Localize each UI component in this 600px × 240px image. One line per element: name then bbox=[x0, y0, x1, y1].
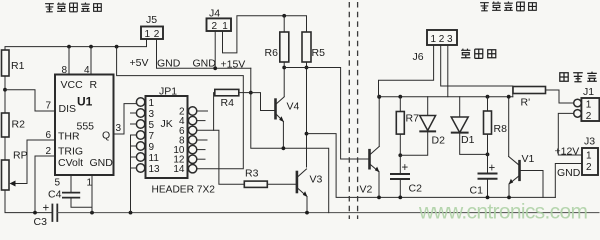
resistor R' bbox=[513, 87, 546, 94]
wire R6/R5 bottoms right to V2 base bbox=[284, 68, 369, 160]
svg-text:RP: RP bbox=[13, 150, 28, 162]
svg-text:VCC: VCC bbox=[61, 79, 84, 91]
resistor R2 bbox=[2, 113, 10, 137]
potentiometer RP wiper arrow bbox=[10, 181, 16, 187]
wire JP1 pin4 stub bbox=[197, 120, 206, 122]
svg-text:3: 3 bbox=[116, 123, 122, 134]
capacitor C4 plates bbox=[63, 192, 79, 194]
wire R6 bottom to V4 collector bbox=[283, 62, 285, 97]
diode D1 bbox=[459, 97, 461, 117]
op-amp U1 555 timer box bbox=[55, 75, 114, 176]
resistor R8 bbox=[484, 111, 492, 134]
wire top rail y=46.6 from R1 top to J5 pin1 bbox=[5, 39, 147, 50]
labels: JP1 pin numbers bbox=[149, 98, 185, 175]
svg-text:J3: J3 bbox=[584, 136, 595, 148]
dashed section divider left bbox=[348, 2, 350, 219]
svg-text:5: 5 bbox=[149, 120, 155, 131]
svg-text:DIS: DIS bbox=[59, 103, 77, 115]
svg-text:3: 3 bbox=[447, 34, 453, 45]
wire D1 bottom to R8 vertical bbox=[460, 133, 488, 155]
connector J4 box bbox=[207, 18, 232, 31]
wire JP1 pin2 stub bbox=[197, 110, 208, 112]
svg-text:2: 2 bbox=[586, 111, 592, 122]
node JP1 pin7 / rail bbox=[129, 211, 133, 215]
wire V1 bottom lead to node line bbox=[508, 184, 510, 197]
svg-text:V3: V3 bbox=[310, 174, 323, 186]
wire R4 right lead to GND vertical bbox=[239, 92, 251, 94]
svg-text:2: 2 bbox=[154, 29, 160, 40]
wire U1 pin4 lead bbox=[90, 47, 92, 75]
svg-text:14: 14 bbox=[173, 164, 185, 175]
svg-text:R6: R6 bbox=[265, 47, 279, 59]
node R1/R2 junction bbox=[3, 88, 7, 92]
wire R' right to J1 pin1 bbox=[546, 90, 574, 103]
wire J4 pin1 +15V jog up to top feed bbox=[223, 16, 307, 53]
node V3 emitter / rail bbox=[305, 211, 309, 215]
wire R6 top lead bbox=[283, 16, 285, 32]
wire TRIG: U1 pin2 left, down to bottom rail bbox=[35, 156, 55, 213]
node R5 mid junction bbox=[305, 132, 309, 136]
transistor V3 bbox=[296, 172, 299, 192]
wire DIS: junction right, down, into U1 pin7 bbox=[5, 90, 55, 111]
wire U1 pin5 lead to C4 bbox=[70, 175, 72, 193]
dashed section divider right bbox=[357, 2, 359, 219]
wire JP1 pin3 stub bbox=[130, 112, 136, 114]
node C1 bottom bbox=[486, 196, 490, 200]
svg-text:THR: THR bbox=[58, 131, 80, 143]
svg-text:R3: R3 bbox=[245, 168, 259, 180]
wire +5V branch: top rail down, right, down to JP1 pin14 row bbox=[117, 47, 244, 169]
wire main regulator node H2 bbox=[379, 96, 513, 98]
svg-text:D2: D2 bbox=[432, 135, 446, 147]
potentiometer RP body bbox=[2, 160, 10, 190]
resistor R1 bbox=[2, 50, 10, 76]
wire J6 pin1 to V2 collector node bbox=[379, 45, 434, 97]
wire R3 right to V3 base bbox=[267, 183, 296, 185]
svg-text:R8: R8 bbox=[494, 123, 508, 135]
svg-text:R4: R4 bbox=[221, 97, 235, 109]
svg-text:R5: R5 bbox=[312, 47, 326, 59]
svg-text:6: 6 bbox=[46, 130, 52, 141]
node R8 top junction bbox=[486, 95, 490, 99]
node C2 bottom bbox=[398, 196, 402, 200]
svg-text:V4: V4 bbox=[287, 101, 300, 113]
svg-text:+15V: +15V bbox=[221, 59, 246, 71]
wire J1 pin2 to J3 pin1 (+12V) bbox=[558, 113, 582, 155]
wire V2 emitter down to node line bbox=[378, 172, 380, 198]
wire C2 top lead bbox=[399, 155, 401, 174]
wire V4 emitter down to emitter-net line bbox=[282, 122, 284, 149]
svg-text:1: 1 bbox=[145, 29, 151, 40]
svg-text:V2: V2 bbox=[360, 184, 373, 196]
svg-text:GND: GND bbox=[157, 58, 181, 70]
wire V2 collector up to main node H2 bbox=[378, 97, 380, 147]
wire Q output pin3 to JP1 pin1 bbox=[114, 104, 137, 134]
svg-text:+: + bbox=[43, 203, 50, 215]
connector J6 box bbox=[427, 30, 457, 45]
wire J3 pin2 GND down to node line bbox=[555, 164, 582, 198]
wire R1 bottom to R2 top bbox=[4, 76, 6, 113]
node R4 right / V4 base junction bbox=[249, 91, 253, 95]
svg-text:9: 9 bbox=[149, 142, 155, 153]
node TRIG/rail junction bbox=[33, 211, 37, 215]
svg-text:C3: C3 bbox=[34, 216, 48, 226]
wire J4 pin2 down to GND node bbox=[214, 31, 216, 68]
resistor R7 bbox=[396, 112, 404, 135]
node R7/C2/D2 junction bbox=[398, 153, 402, 157]
label 逆变稳压器 (title right) bbox=[480, 2, 536, 11]
pin circle J1 pin2 bbox=[574, 110, 582, 118]
svg-text:CVolt: CVolt bbox=[58, 157, 83, 169]
svg-text:2: 2 bbox=[439, 34, 445, 45]
svg-text:+: + bbox=[489, 163, 496, 175]
label 逆变控制器 (title left) bbox=[45, 3, 101, 12]
wire JP1 pin12 stub bbox=[197, 158, 206, 160]
wire R5 mid branch down to regulator node line bbox=[307, 134, 556, 198]
svg-text:1: 1 bbox=[222, 21, 228, 32]
wire C2 bottom lead bbox=[399, 179, 401, 197]
labels: U1 interior and pin numbers bbox=[58, 79, 113, 169]
svg-text:J4: J4 bbox=[209, 8, 220, 20]
svg-text:7: 7 bbox=[46, 101, 52, 112]
svg-text:1: 1 bbox=[149, 98, 155, 109]
node R5 bottom junction bbox=[305, 66, 309, 70]
svg-text:1: 1 bbox=[586, 100, 592, 111]
resistor R5 bbox=[302, 32, 311, 62]
wire J6 pin3 down to H2 bbox=[447, 45, 449, 97]
wire V3 emitter to bottom rail bbox=[306, 197, 308, 213]
wire J6 pin2 to R' left bbox=[441, 45, 513, 97]
header JP1 box bbox=[130, 96, 244, 213]
wire JP1 pin5 stub bbox=[130, 123, 136, 125]
svg-text:R': R' bbox=[521, 97, 531, 109]
svg-text:+5V: +5V bbox=[130, 57, 149, 69]
svg-text:J1: J1 bbox=[583, 86, 594, 98]
node V2 emitter / node line bbox=[377, 196, 381, 200]
label 变压器 (transformer) bbox=[461, 49, 496, 59]
wire R7 top lead bbox=[399, 97, 401, 112]
svg-text:D1: D1 bbox=[461, 134, 475, 146]
svg-text:5: 5 bbox=[55, 178, 61, 189]
node V4 emitter junction bbox=[282, 146, 286, 150]
wire JP1 pin7 to bottom rail bbox=[131, 135, 137, 213]
svg-text:U1: U1 bbox=[77, 95, 93, 109]
pin circles JP1 right column pins 2,4,6,8,10,12,14 bbox=[188, 107, 196, 115]
svg-text:GND: GND bbox=[557, 167, 581, 179]
svg-text:1: 1 bbox=[87, 178, 93, 189]
node V1 bottom bbox=[507, 196, 511, 200]
wire JP1 pin9 stub bbox=[131, 145, 136, 147]
wire R5 bottom down to V3 collector bbox=[306, 62, 308, 167]
svg-text:+: + bbox=[402, 162, 409, 174]
svg-text:2: 2 bbox=[212, 21, 218, 32]
svg-text:2: 2 bbox=[46, 146, 52, 157]
svg-text:R1: R1 bbox=[11, 60, 25, 72]
wire THR: U1 pin6 left, down to RP wiper bbox=[12, 140, 55, 184]
resistor R3 bbox=[244, 181, 267, 187]
svg-text:JK: JK bbox=[161, 118, 173, 130]
connector J1 box bbox=[581, 98, 599, 121]
svg-text:C1: C1 bbox=[470, 185, 484, 197]
svg-text:4: 4 bbox=[84, 65, 90, 76]
svg-text:GND: GND bbox=[90, 157, 114, 169]
svg-text:J5: J5 bbox=[146, 14, 157, 26]
wire V4 base jog bbox=[251, 93, 275, 111]
wire RP bottom to bottom rail bbox=[5, 190, 52, 213]
svg-text:Q: Q bbox=[102, 130, 110, 142]
node R6 top junction bbox=[282, 14, 286, 18]
capacitor C2 plates bbox=[391, 173, 409, 175]
svg-text:+12V: +12V bbox=[555, 146, 580, 158]
connector J3 box bbox=[582, 148, 598, 175]
svg-text:1: 1 bbox=[586, 151, 592, 162]
node R6 bottom junction bbox=[282, 66, 286, 70]
wire U1 pin8 lead bbox=[68, 47, 70, 75]
node V2 collector junction bbox=[377, 95, 381, 99]
wire R8 bottom through D1 node to C1 top bbox=[487, 134, 489, 173]
wire D2 bottom to node155 bbox=[400, 131, 427, 155]
wire C1 bottom lead bbox=[487, 179, 489, 198]
wire JP1 pin6 to R3 left bbox=[197, 130, 245, 184]
wire JP1 pin10 stub bbox=[197, 149, 206, 151]
svg-text:3: 3 bbox=[149, 109, 155, 120]
node GND junction bbox=[213, 66, 217, 70]
capacitor C3 plates (in series with bottom rail) bbox=[51, 205, 53, 222]
label 电流表 (ammeter) bbox=[560, 72, 597, 82]
node D1/R8 junction bbox=[486, 153, 490, 157]
node U1 GND / rail bbox=[90, 211, 94, 215]
svg-text:7: 7 bbox=[149, 131, 155, 142]
diode D2 bbox=[427, 97, 429, 116]
svg-text:13: 13 bbox=[149, 164, 161, 175]
wire U1 pin1 lead to rail bbox=[91, 175, 93, 213]
wire V1 top lead to H2 bbox=[508, 97, 510, 157]
svg-text:GND: GND bbox=[193, 58, 217, 70]
wire R7 bottom lead to node155 bbox=[399, 134, 401, 155]
resistor R4 bbox=[215, 89, 239, 95]
wire C4 bottom jog to rail bbox=[71, 198, 92, 208]
svg-text:C4: C4 bbox=[48, 189, 62, 201]
node V1 top / H2 bbox=[507, 95, 511, 99]
wire J5 pin2 down to GND bracket bbox=[157, 39, 251, 68]
connector J5 box bbox=[141, 27, 163, 40]
svg-text:TRIG: TRIG bbox=[58, 146, 83, 158]
pin circle J1 pin1 bbox=[574, 99, 582, 107]
node R7 top junction bbox=[398, 95, 402, 99]
svg-text:8: 8 bbox=[62, 65, 68, 76]
wire bottom rail right of C3 bbox=[57, 212, 599, 214]
svg-text:C2: C2 bbox=[409, 183, 423, 195]
svg-text:V1: V1 bbox=[522, 153, 535, 165]
wire JP1 pin8 stub bbox=[197, 139, 208, 141]
wire R4 left lead down to pin6 wire bbox=[214, 93, 215, 131]
pin circles JP1 left column pins 1,3,5,7,9,11,13 bbox=[136, 98, 144, 106]
transistor V2 bbox=[368, 150, 371, 168]
svg-text:R7: R7 bbox=[406, 113, 420, 125]
wire JP1 pin11 stub bbox=[131, 156, 136, 158]
wire R2 bottom to RP top bbox=[4, 137, 6, 160]
svg-text:2: 2 bbox=[586, 162, 592, 173]
svg-text:HEADER 7X2: HEADER 7X2 bbox=[152, 185, 216, 196]
node top-rail junction dots bbox=[67, 45, 118, 49]
resistor R6 bbox=[280, 32, 289, 62]
svg-text:1: 1 bbox=[431, 34, 437, 45]
transistor V1 (mirrored, base right) bbox=[518, 161, 521, 180]
wire V1 base right then down to node line bbox=[520, 171, 544, 198]
svg-text:11: 11 bbox=[149, 153, 160, 164]
svg-text:J6: J6 bbox=[413, 51, 424, 63]
svg-text:www.cntronics.com: www.cntronics.com bbox=[418, 201, 588, 224]
wire GND bracket down, right to V4 emitter line, down to rail bbox=[251, 68, 329, 212]
wire R8 top lead bbox=[487, 97, 489, 111]
svg-text:JP1: JP1 bbox=[159, 86, 177, 98]
svg-text:R2: R2 bbox=[12, 119, 26, 131]
transistor V4 bbox=[274, 100, 277, 119]
capacitor C1 plates bbox=[479, 173, 497, 175]
wire JP1 pin13 stub bbox=[131, 167, 136, 169]
svg-text:R: R bbox=[90, 79, 98, 91]
